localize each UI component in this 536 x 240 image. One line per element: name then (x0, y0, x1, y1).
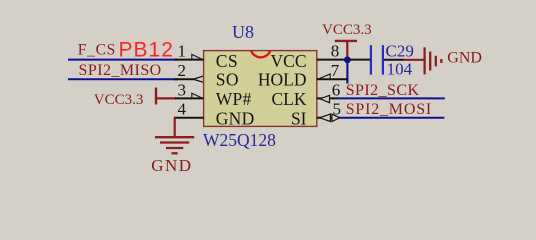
svg-text:3: 3 (178, 80, 187, 99)
svg-text:1: 1 (178, 41, 187, 60)
pin 2 output arrow (193, 76, 203, 82)
pin 8 stub (317, 59, 347, 61)
svg-text:5: 5 (333, 100, 342, 119)
svg-text:7: 7 (331, 61, 340, 80)
ground symbol bottom (155, 137, 194, 153)
pin 1 stub (174, 59, 204, 61)
pin 5 stub (317, 117, 340, 119)
svg-text:C29: C29 (386, 42, 414, 61)
power port VCC3.3 left stem wire to pin 3 (156, 97, 176, 99)
svg-text:104: 104 (387, 59, 413, 78)
wire junction down to pin 7 (346, 60, 348, 84)
svg-text:CS: CS (216, 51, 238, 71)
power port VCC3.3 right bar (335, 40, 357, 42)
svg-text:8: 8 (331, 41, 340, 60)
svg-text:GND: GND (447, 49, 482, 66)
pin 7 input marker (318, 74, 330, 79)
pin 7 stub (317, 78, 349, 80)
svg-text:PB12: PB12 (119, 39, 174, 62)
svg-text:6: 6 (332, 80, 341, 99)
wire capacitor to ground (384, 59, 404, 61)
power port VCC3.3 right stem (346, 41, 348, 60)
pin 6 stub (317, 97, 338, 99)
svg-text:4: 4 (178, 100, 187, 119)
IC U8 body (204, 51, 317, 127)
svg-text:CLK: CLK (272, 89, 307, 109)
capacitor C29 plate 1 (370, 45, 372, 74)
wire net SPI2_MISO (pin 2) (68, 78, 178, 80)
svg-text:SO: SO (216, 70, 239, 90)
pin 3 input marker (192, 93, 203, 98)
junction dot pin8/VCC/C29 (344, 56, 351, 63)
svg-text:F_CS: F_CS (78, 42, 116, 59)
capacitor C29 plate 2 (382, 45, 384, 74)
pin 2 stub (174, 78, 194, 80)
IC U8 notch arc (251, 51, 270, 57)
svg-text:VCC3.3: VCC3.3 (322, 22, 372, 38)
wire junction to capacitor (347, 59, 370, 61)
svg-text:W25Q128: W25Q128 (203, 130, 276, 150)
ground symbol right stem (404, 59, 424, 61)
svg-text:VCC: VCC (271, 51, 307, 71)
wire net SPI2_SCK (337, 97, 445, 99)
wire net SPI2_MOSI (340, 117, 444, 119)
pin 6 input arrow (320, 95, 330, 102)
pin 4 stub (174, 117, 204, 119)
pin 3 stub (175, 97, 204, 99)
svg-text:2: 2 (178, 61, 187, 80)
pin 5 bidirectional arrow right (332, 114, 340, 121)
svg-text:SI: SI (291, 108, 307, 128)
svg-text:WP#: WP# (216, 89, 252, 109)
svg-text:GND: GND (216, 108, 255, 128)
pin 1 input marker (192, 54, 203, 59)
svg-text:SPI2_MISO: SPI2_MISO (79, 62, 162, 79)
wire net F_CS (pin 1) (68, 59, 178, 61)
svg-text:GND: GND (151, 156, 192, 175)
pin 5 bidirectional arrow left (320, 114, 331, 121)
ground symbol right (425, 47, 442, 74)
svg-text:U8: U8 (232, 22, 254, 42)
power port VCC3.3 left bar (155, 88, 157, 105)
wire pin 4 to ground (174, 118, 176, 137)
svg-text:SPI2_MOSI: SPI2_MOSI (346, 101, 432, 118)
svg-text:SPI2_SCK: SPI2_SCK (346, 82, 420, 99)
svg-text:HOLD: HOLD (258, 70, 307, 90)
svg-text:VCC3.3: VCC3.3 (94, 92, 144, 108)
